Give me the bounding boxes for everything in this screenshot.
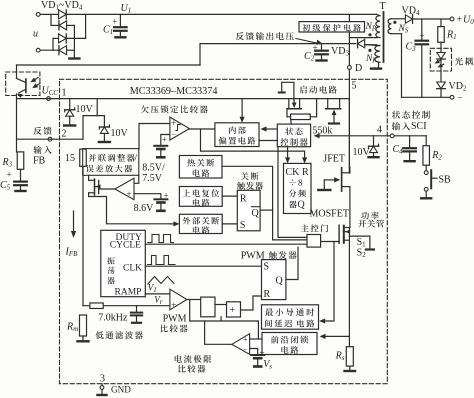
svg-text:SB: SB <box>439 175 452 186</box>
svg-text:−: − <box>243 345 248 354</box>
svg-text:−: − <box>172 131 177 140</box>
svg-text:+: + <box>230 305 236 316</box>
svg-text:7.0kHz: 7.0kHz <box>98 313 128 324</box>
svg-text:FB: FB <box>33 156 46 167</box>
svg-text:10V: 10V <box>76 104 94 115</box>
svg-text:S: S <box>264 262 270 273</box>
svg-text:PWM: PWM <box>163 314 187 325</box>
svg-text:R: R <box>302 167 309 178</box>
svg-text:2: 2 <box>62 129 67 140</box>
svg-text:5: 5 <box>352 81 357 92</box>
svg-text:R: R <box>264 289 271 300</box>
svg-text:10V: 10V <box>111 128 129 139</box>
svg-text:NS: NS <box>398 24 409 35</box>
svg-text:RAMP: RAMP <box>115 288 142 298</box>
svg-text:8.5V/: 8.5V/ <box>142 163 165 174</box>
svg-text:MC33369–MC33374: MC33369–MC33374 <box>130 86 218 97</box>
svg-text:NP: NP <box>365 22 377 33</box>
svg-text:SCI: SCI <box>411 121 427 132</box>
svg-text:MOSFET: MOSFET <box>310 209 349 220</box>
svg-text:+: + <box>171 118 176 128</box>
svg-text:3: 3 <box>100 374 105 385</box>
svg-text:7.5V: 7.5V <box>142 173 163 184</box>
svg-text:S: S <box>240 220 246 231</box>
svg-text:+: + <box>127 189 132 199</box>
svg-text:+: + <box>164 191 169 201</box>
svg-text:/: / <box>135 152 138 163</box>
svg-text:Q: Q <box>252 208 260 219</box>
svg-text:+: + <box>162 135 167 145</box>
svg-text:+: + <box>260 348 265 358</box>
svg-text:CYCLE: CYCLE <box>110 241 141 251</box>
svg-text:15: 15 <box>65 153 75 164</box>
svg-text:D: D <box>355 63 362 74</box>
svg-text:10V: 10V <box>353 147 371 158</box>
svg-text:−: − <box>457 93 463 104</box>
svg-text:+: + <box>243 335 248 344</box>
svg-text:Q: Q <box>298 200 306 211</box>
svg-text:JFET: JFET <box>323 154 345 165</box>
svg-text:550k: 550k <box>312 126 332 137</box>
svg-text:CLK: CLK <box>123 263 142 273</box>
svg-text:+: + <box>112 17 117 27</box>
svg-text:u: u <box>33 29 38 40</box>
svg-text:1: 1 <box>62 88 67 99</box>
svg-text:+: + <box>7 170 12 180</box>
svg-text:CK: CK <box>286 167 301 178</box>
svg-text:NF: NF <box>365 54 377 65</box>
svg-text:+: + <box>457 15 463 26</box>
svg-text:T: T <box>380 1 386 12</box>
svg-text:4: 4 <box>377 125 382 136</box>
svg-text:VD1~VD4: VD1~VD4 <box>41 0 83 12</box>
svg-text:GND: GND <box>111 385 131 395</box>
svg-text:R: R <box>240 194 247 205</box>
svg-text:+: + <box>420 31 425 41</box>
svg-text:Q: Q <box>276 276 284 287</box>
svg-text:8.6V: 8.6V <box>134 203 155 214</box>
svg-text:+: + <box>171 300 176 310</box>
